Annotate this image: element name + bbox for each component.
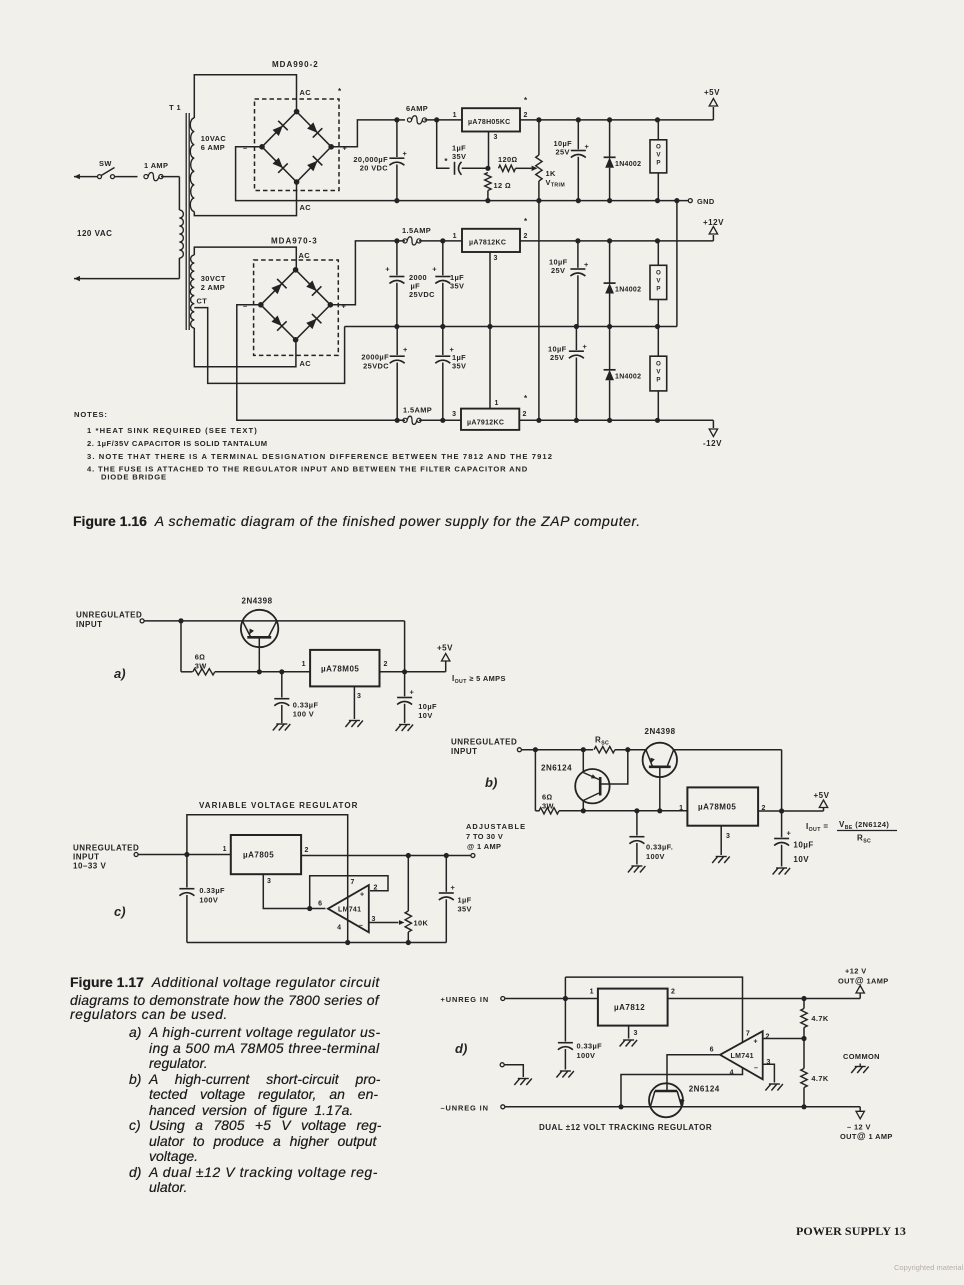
svg-text:b): b) [485, 775, 497, 790]
terminal -12V arrow [709, 429, 717, 437]
wire 1uF bottom [445, 899, 447, 942]
capacitor 0.33uF 100V b [629, 836, 644, 838]
svg-text:1: 1 [590, 989, 594, 996]
wire bridge2 minus to -12V rail [237, 305, 405, 421]
svg-text:LM741: LM741 [731, 1053, 754, 1060]
svg-text:+: + [403, 149, 408, 158]
svg-text:120Ω: 120Ω [498, 155, 518, 164]
svg-text:IOUT =: IOUT = [806, 822, 828, 833]
ground d2 [620, 1040, 638, 1047]
svg-text:3: 3 [494, 134, 498, 141]
wire pin3 down [488, 132, 490, 169]
wire to tantalum cap [437, 120, 450, 168]
svg-text:1.5AMP: 1.5AMP [403, 406, 432, 415]
svg-text:T 1: T 1 [169, 103, 181, 112]
wire Q1 collector to output [404, 621, 406, 672]
wire down to output [781, 750, 783, 811]
svg-text:1 *HEAT SINK REQUIRED (SEE TEX: 1 *HEAT SINK REQUIRED (SEE TEXT) [87, 426, 258, 435]
wire minus input to gnd [763, 1064, 775, 1082]
svg-text:25VDC: 25VDC [363, 362, 389, 371]
svg-text:1: 1 [495, 400, 499, 407]
wire to U5 pin1 [559, 810, 687, 812]
terminal input b [517, 748, 521, 752]
svg-text:2000µF: 2000µF [361, 353, 389, 362]
wire output b [758, 810, 823, 812]
svg-text:0.33µF: 0.33µF [293, 701, 319, 710]
wire +5V riser a [445, 662, 447, 672]
ground a2 [345, 721, 363, 728]
svg-text:–: – [359, 923, 363, 930]
svg-text:–: – [243, 144, 248, 153]
caption Figure 1.17 [70, 974, 380, 990]
svg-text:10V: 10V [418, 711, 432, 720]
svg-text:1: 1 [453, 233, 457, 240]
svg-text:100V: 100V [577, 1051, 596, 1060]
bridge rectifier MDA970-3 [261, 270, 331, 340]
svg-text:OUT@ 1AMP: OUT@ 1AMP [838, 976, 889, 986]
wire common midrail [345, 326, 677, 328]
node 2000uF lower bottom [395, 418, 400, 423]
svg-text:*: * [524, 394, 528, 403]
svg-text:100V: 100V [199, 896, 218, 905]
svg-text:2: 2 [305, 847, 309, 854]
svg-text:3W: 3W [195, 661, 207, 670]
ground COMMON [859, 1064, 861, 1067]
svg-text:c): c) [114, 904, 126, 919]
wire [419, 240, 462, 242]
wire fuse to regulator [425, 119, 463, 121]
wire secondary1 top to bridge1 AC top [194, 75, 296, 118]
wire switch to fuse [115, 176, 138, 178]
terminal +5V b [819, 800, 827, 808]
svg-text:µA78H05KC: µA78H05KC [468, 119, 511, 126]
potentiometer 10K [405, 911, 411, 932]
wire secondary2 bottom to bridge2 AC [194, 328, 296, 367]
terminal input a [140, 619, 144, 623]
wire [615, 749, 646, 751]
svg-text:+: + [360, 892, 364, 899]
svg-text:+: + [432, 265, 437, 274]
ground b2 [712, 857, 730, 864]
svg-text:6AMP: 6AMP [406, 104, 428, 113]
svg-text:2: 2 [374, 885, 378, 892]
wire Q2 to feedback corner [674, 749, 782, 751]
svg-text:V: V [656, 369, 661, 376]
terminal -unreg in [501, 1105, 505, 1109]
wiper arrow 1K trim [532, 166, 538, 171]
wire [609, 327, 611, 370]
svg-text:+: + [342, 302, 347, 311]
wire GND bus from bridge1 minus [236, 147, 688, 201]
svg-text:+: + [583, 342, 588, 351]
svg-text:VBE (2N6124): VBE (2N6124) [839, 820, 889, 831]
terminal +5V arrow [709, 99, 717, 107]
svg-text:P: P [656, 160, 660, 167]
svg-text:µA7805: µA7805 [243, 851, 274, 860]
transistor Q1 2N4398 [241, 610, 278, 647]
wire [396, 120, 398, 157]
svg-text:+: + [403, 345, 408, 354]
wire OVP top [657, 120, 659, 140]
svg-text:3. NOTE THAT THERE IS A TERMIN: 3. NOTE THAT THERE IS A TERMINAL DESIGNA… [87, 452, 553, 461]
svg-text:1: 1 [453, 112, 457, 119]
wire to 0.33uF b [636, 811, 638, 836]
wire minus input to 10K wiper [369, 922, 399, 924]
svg-text:V: V [656, 152, 661, 159]
wire input c [138, 854, 231, 856]
wire Q1 base [258, 637, 260, 672]
resistor 120 ohm [499, 165, 516, 171]
wiper arrow 10K [399, 920, 405, 925]
svg-text:2: 2 [766, 1034, 770, 1041]
wire left frame down [186, 895, 188, 943]
op-amp U9 LM741 (d) [720, 1031, 763, 1079]
svg-text:2: 2 [523, 411, 527, 418]
svg-text:a): a) [114, 666, 126, 681]
svg-text:RSC: RSC [595, 736, 609, 747]
ground d1 [556, 1071, 574, 1078]
svg-text:10µF: 10µF [793, 841, 813, 850]
wire 10K top [407, 856, 409, 912]
svg-text:+12 V: +12 V [845, 967, 867, 976]
svg-text:1K: 1K [546, 169, 557, 178]
wire [442, 327, 444, 356]
wire Q3 emitter [582, 750, 584, 773]
transistor Q3 2N6124 (b) [575, 769, 609, 803]
wire OVP3 top [657, 327, 659, 357]
capacitor 0.33uF 100V a [274, 698, 289, 700]
svg-text:µA7812: µA7812 [614, 1003, 645, 1012]
svg-text:VARIABLE VOLTAGE REGULATOR: VARIABLE VOLTAGE REGULATOR [199, 801, 358, 810]
resistor 6 ohm 3W a [193, 669, 215, 675]
svg-text:35V: 35V [458, 905, 472, 914]
svg-text:AC: AC [299, 251, 311, 260]
svg-text:RSC: RSC [857, 834, 871, 845]
floating ground d [500, 1063, 504, 1067]
wire tantalum to pin3 node [462, 167, 488, 169]
svg-text:25VDC: 25VDC [409, 290, 435, 299]
svg-text:+5V: +5V [437, 644, 453, 653]
regulator U2 uA7812KC box [462, 229, 520, 252]
svg-text:O: O [656, 361, 661, 368]
ground b3 [773, 868, 791, 875]
wire OVP2 bottom [657, 300, 659, 327]
resistor 6 ohm 3W b [539, 808, 559, 814]
OVP module (+12V) [650, 265, 667, 299]
svg-text:+: + [754, 1039, 758, 1046]
svg-text:2: 2 [524, 233, 528, 240]
wire Q3 base to RSC node [600, 750, 628, 784]
svg-text:0.33µF: 0.33µF [577, 1042, 603, 1051]
wire +5V riser [712, 107, 714, 120]
svg-text:+5V: +5V [814, 791, 830, 800]
svg-text:MDA970-3: MDA970-3 [271, 237, 318, 246]
svg-text:6 AMP: 6 AMP [201, 143, 225, 152]
svg-text:35V: 35V [452, 152, 466, 161]
wire fuse to primary [161, 176, 179, 178]
wire +5V output rail [520, 119, 713, 121]
node divider mid [801, 1036, 806, 1041]
transformer secondary 1 winding [190, 118, 194, 212]
svg-text:4.7K: 4.7K [811, 1014, 828, 1023]
svg-text:1N4002: 1N4002 [615, 374, 641, 381]
svg-text:35V: 35V [450, 282, 464, 291]
svg-text:LM741: LM741 [338, 907, 361, 914]
transformer secondary 2 winding [190, 255, 194, 328]
capacitor 20,000uF 20VDC [389, 157, 404, 159]
wire bottom frame c [187, 942, 446, 944]
svg-text:3: 3 [726, 833, 730, 840]
AC line arrow top [74, 174, 80, 179]
wire to 0.33uF c [186, 855, 188, 888]
capacitor 2000uF 25VDC lower [390, 355, 405, 357]
terminal +12V arrow [709, 227, 717, 235]
svg-text:SW: SW [99, 159, 112, 168]
wire top frame d to op-amp pin7 [565, 977, 742, 1042]
svg-text:@ 1 AMP: @ 1 AMP [467, 842, 501, 851]
svg-text:4.7K: 4.7K [811, 1074, 828, 1083]
wire -12V output rail [519, 419, 713, 421]
wire OVP bottom [657, 173, 659, 201]
wire AC bottom [86, 278, 179, 280]
svg-text:10V: 10V [793, 855, 809, 864]
capacitor 1uF 35V c [439, 892, 454, 894]
wire [396, 165, 398, 201]
svg-text:AC: AC [300, 88, 312, 97]
transistor Q2 2N4398 (b) [643, 743, 677, 777]
switch SW [98, 175, 102, 179]
svg-text:2: 2 [524, 112, 528, 119]
svg-text:+: + [585, 142, 590, 151]
capacitor 10uF 25V (-12V) [569, 350, 584, 352]
terminal input c [134, 853, 138, 857]
wire U8 pin3 gnd [628, 1026, 630, 1039]
svg-text:10VAC: 10VAC [201, 134, 227, 143]
page footer POWER SUPPLY 13 [796, 1224, 906, 1239]
svg-text:4: 4 [730, 1070, 734, 1077]
wire pot return to -12V rail [538, 201, 540, 421]
svg-text:MDA990-2: MDA990-2 [272, 60, 319, 69]
wire +unreg [505, 998, 598, 1000]
wire op-amp pin4 to -unreg [621, 1068, 743, 1107]
resistor 4.7K lower [801, 1069, 807, 1088]
svg-text:*: * [524, 96, 528, 105]
transformer T1 primary winding [179, 210, 183, 258]
wire output c [301, 855, 471, 857]
svg-text:1 AMP: 1 AMP [144, 161, 168, 170]
OVP module (+5V) [650, 140, 667, 173]
wire [575, 327, 577, 351]
wire secondary2 top to bridge2 AC [194, 247, 296, 270]
svg-text:1N4002: 1N4002 [615, 161, 641, 168]
wire [442, 241, 444, 275]
fraction bar [837, 830, 897, 832]
svg-text:2 AMP: 2 AMP [201, 283, 225, 292]
ground a1 [273, 724, 291, 731]
regulator U3 uA7912KC box [461, 409, 519, 430]
svg-text:2N4398: 2N4398 [242, 597, 273, 606]
node a1 [178, 618, 183, 623]
wire 4.7K lower top [803, 1039, 805, 1069]
svg-text:UNREGULATED: UNREGULATED [73, 844, 139, 853]
svg-text:6: 6 [710, 1047, 714, 1054]
wire pot bottom [538, 181, 540, 201]
svg-text:-12V: -12V [703, 439, 722, 448]
svg-text:*: * [444, 157, 448, 166]
wire [181, 671, 193, 673]
wire +12V riser [712, 235, 714, 241]
svg-text:+: + [451, 883, 456, 892]
bridge MDA990-2 dashed box [255, 99, 340, 191]
svg-text:120 VAC: 120 VAC [77, 229, 112, 238]
copyright notice [894, 1263, 963, 1272]
svg-text:20 VDC: 20 VDC [360, 164, 389, 173]
svg-text:1: 1 [679, 805, 683, 812]
svg-text:–: – [754, 1065, 758, 1072]
resistor RSC [594, 747, 615, 753]
svg-text:10µF: 10µF [418, 702, 437, 711]
svg-text:10–33 V: 10–33 V [73, 862, 106, 871]
wire [419, 419, 461, 421]
svg-text:2. 1µF/35V CAPACITOR IS SOLID: 2. 1µF/35V CAPACITOR IS SOLID TANTALUM [87, 439, 268, 448]
svg-text:UNREGULATED: UNREGULATED [451, 738, 517, 747]
svg-text:AC: AC [300, 359, 312, 368]
wire [577, 241, 579, 268]
svg-text:+: + [343, 144, 348, 153]
svg-text:1: 1 [223, 846, 227, 853]
wire +5V riser b [823, 808, 825, 811]
svg-text:100 V: 100 V [293, 710, 314, 719]
capacitor 0.33uF 100V c [179, 888, 194, 890]
regulator U1 uA78H05KC box [462, 108, 520, 131]
svg-text:0.33µF: 0.33µF [199, 886, 225, 895]
svg-text:P: P [656, 377, 660, 384]
svg-text:6Ω: 6Ω [195, 653, 206, 662]
transformer T1 core [185, 113, 187, 330]
wire 12ohm to gnd rail [487, 191, 489, 201]
wire output a [380, 671, 446, 673]
ground b1 [628, 866, 646, 873]
op-amp U7 LM741 (c) [328, 885, 369, 932]
svg-text:*: * [338, 87, 342, 96]
svg-text:25V: 25V [556, 148, 570, 157]
svg-text:INPUT: INPUT [73, 853, 100, 862]
transistor Q4 2N6124 (d) [649, 1083, 683, 1117]
svg-text:0.33µF.: 0.33µF. [646, 843, 673, 852]
AC line arrow bottom [74, 276, 80, 281]
regulator U4 uA78M05 box [310, 650, 379, 687]
svg-text:+: + [584, 260, 589, 269]
resistor 12 ohm [485, 173, 491, 191]
wire secondary1 bottom to bridge1 AC bottom [194, 182, 296, 216]
svg-text:100V: 100V [646, 852, 665, 861]
wire pot top [538, 120, 540, 155]
wire 1uF top [445, 856, 447, 892]
svg-text:µA78M05: µA78M05 [698, 803, 736, 812]
OVP module (-12V) [650, 356, 667, 391]
terminal -12V out [856, 1111, 864, 1119]
svg-text:35V: 35V [452, 362, 466, 371]
svg-text:3: 3 [357, 693, 361, 700]
fuse 1 AMP [144, 175, 148, 179]
svg-text:2N4398: 2N4398 [645, 727, 676, 736]
wire [609, 120, 611, 158]
regulator U6 uA7805 box [231, 835, 301, 874]
svg-text:d): d) [455, 1041, 467, 1056]
svg-text:+: + [385, 265, 390, 274]
wire riser +12 out [859, 994, 861, 999]
wire +12V out d [668, 998, 861, 1000]
wire to 10uF b [781, 811, 783, 837]
caption Figure 1.16 [73, 513, 641, 529]
wire primary bottom lead [178, 258, 180, 279]
svg-text:IOUT ≥ 5 AMPS: IOUT ≥ 5 AMPS [452, 674, 506, 685]
wire input rail b [522, 749, 594, 751]
wire +12V output rail [520, 240, 713, 242]
svg-text:7: 7 [351, 879, 355, 886]
wire down to 6ohm [180, 621, 182, 672]
svg-text:7: 7 [746, 1031, 750, 1038]
capacitor 1uF 35V upper [435, 276, 450, 278]
svg-text:µA7912KC: µA7912KC [467, 420, 504, 427]
capacitor 10uF 25V (+5V) [571, 150, 586, 152]
svg-text:+UNREG IN: +UNREG IN [441, 995, 490, 1004]
svg-text:OUT@ 1 AMP: OUT@ 1 AMP [840, 1131, 893, 1141]
wire CT to common midrail [194, 308, 344, 384]
wire U6 pin3 to op-amp out [263, 874, 325, 908]
wire Q3 collector [582, 801, 584, 811]
regulator U8 uA7812 box [598, 989, 668, 1026]
node 2000uF top [394, 238, 399, 243]
wire GND to common midrail [676, 201, 678, 327]
wire to 10uF a [404, 672, 406, 697]
node tantalum drop [434, 117, 439, 122]
wire -12V riser [712, 420, 714, 428]
svg-text:1.5AMP: 1.5AMP [402, 226, 431, 235]
resistor 4.7K upper [801, 1009, 807, 1028]
fuse 1.5 AMP (-12V) [403, 418, 407, 422]
wire [609, 241, 611, 283]
wire 4.7K upper top [803, 999, 805, 1009]
svg-text:1: 1 [302, 661, 306, 668]
diode 1N4002 (-12V) [604, 370, 616, 380]
svg-text:3: 3 [494, 255, 498, 262]
svg-text:2: 2 [671, 989, 675, 996]
capacitor 0.33uF 100V d [558, 1042, 573, 1044]
wire to 0.33uF d [564, 999, 566, 1042]
svg-text:1N4002: 1N4002 [615, 287, 641, 294]
wire -unreg rail [505, 1106, 860, 1108]
capacitor 10uF 10V a [397, 697, 412, 699]
svg-text:O: O [656, 270, 661, 277]
fuse 1.5 AMP (+12V) [403, 239, 407, 243]
wire OVP3 bottom [657, 391, 659, 420]
svg-text:6: 6 [318, 901, 322, 908]
wire feedback to op-amp plus [310, 876, 388, 909]
svg-text:1µF: 1µF [458, 896, 472, 905]
node pin3 [485, 166, 490, 171]
node b3 [625, 747, 630, 752]
svg-text:2: 2 [384, 661, 388, 668]
svg-text:30VCT: 30VCT [201, 274, 226, 283]
svg-text:AC: AC [300, 203, 312, 212]
terminal +5V a [442, 654, 450, 662]
wire OVP2 top [657, 241, 659, 265]
wire bridge2 plus to 7812 rail [330, 241, 405, 305]
svg-text:ADJUSTABLE: ADJUSTABLE [466, 822, 526, 831]
bridge MDA970-3 dashed box [254, 260, 339, 355]
svg-text:25V: 25V [551, 266, 565, 275]
